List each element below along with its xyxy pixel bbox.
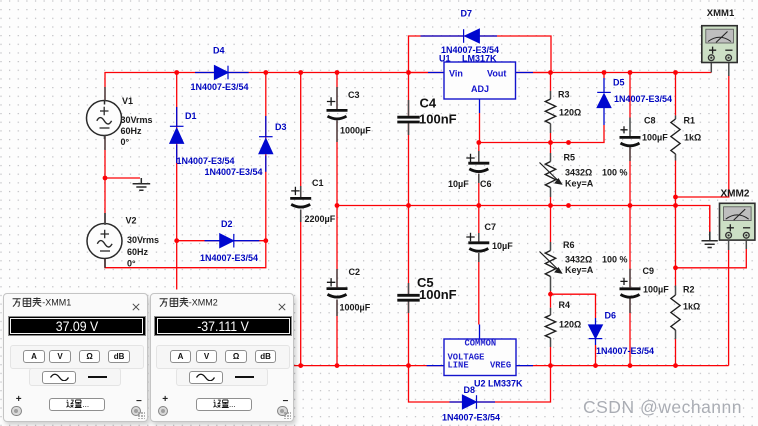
svg-text:0°: 0° — [127, 259, 136, 269]
svg-text:30Vrms: 30Vrms — [127, 235, 159, 245]
svg-text:2200µF: 2200µF — [305, 214, 336, 224]
svg-text:30Vrms: 30Vrms — [121, 115, 153, 125]
svg-text:100µF: 100µF — [642, 133, 668, 143]
svg-text:120Ω: 120Ω — [559, 108, 581, 118]
svg-text:1000µF: 1000µF — [340, 126, 371, 136]
svg-text:100µF: 100µF — [643, 285, 669, 295]
svg-text:1N4007-E3/54: 1N4007-E3/54 — [191, 82, 249, 92]
svg-text:C2: C2 — [349, 267, 361, 277]
svg-text:D3: D3 — [275, 122, 287, 132]
svg-text:R4: R4 — [559, 300, 571, 310]
svg-text:C6: C6 — [480, 179, 492, 189]
svg-text:U2 LM337K: U2 LM337K — [474, 379, 523, 389]
svg-text:C1: C1 — [312, 178, 324, 188]
svg-text:60Hz: 60Hz — [127, 247, 149, 257]
svg-text:1N4007-E3/54: 1N4007-E3/54 — [205, 167, 263, 177]
svg-text:3432Ω: 3432Ω — [565, 255, 592, 265]
svg-text:3432Ω: 3432Ω — [565, 168, 592, 178]
svg-text:120Ω: 120Ω — [559, 320, 581, 330]
svg-text:10µF: 10µF — [492, 241, 513, 251]
svg-text:0°: 0° — [121, 137, 130, 147]
svg-text:D5: D5 — [613, 78, 625, 88]
svg-text:U1: U1 — [439, 54, 451, 64]
svg-text:C7: C7 — [485, 222, 497, 232]
svg-text:C3: C3 — [348, 90, 360, 100]
svg-text:1N4007-E3/54: 1N4007-E3/54 — [442, 413, 500, 423]
svg-text:100nF: 100nF — [419, 112, 457, 127]
svg-text:C9: C9 — [643, 266, 655, 276]
svg-text:V2: V2 — [126, 216, 137, 226]
svg-text:R3: R3 — [558, 90, 570, 100]
svg-text:1N4007-E3/54: 1N4007-E3/54 — [177, 156, 235, 166]
svg-text:1N4007-E3/54: 1N4007-E3/54 — [596, 346, 654, 356]
svg-text:Key=A: Key=A — [565, 265, 594, 275]
svg-text:R1: R1 — [684, 116, 696, 126]
svg-text:C8: C8 — [644, 116, 656, 126]
svg-text:LM317K: LM317K — [462, 54, 497, 64]
svg-text:D1: D1 — [185, 111, 197, 121]
svg-text:R5: R5 — [564, 153, 576, 163]
svg-text:D6: D6 — [605, 311, 617, 321]
svg-text:100 %: 100 % — [602, 255, 628, 265]
svg-text:D4: D4 — [213, 46, 225, 56]
svg-text:V1: V1 — [122, 96, 133, 106]
svg-text:D7: D7 — [461, 9, 473, 19]
svg-text:100nF: 100nF — [419, 287, 457, 302]
svg-text:R6: R6 — [563, 240, 575, 250]
svg-text:1N4007-E3/54: 1N4007-E3/54 — [200, 253, 258, 263]
svg-text:XMM1: XMM1 — [707, 8, 735, 19]
svg-text:1000µF: 1000µF — [340, 303, 371, 313]
svg-text:10µF: 10µF — [448, 179, 469, 189]
svg-text:Key=A: Key=A — [565, 179, 594, 189]
svg-text:1kΩ: 1kΩ — [684, 133, 701, 143]
svg-text:100 %: 100 % — [602, 168, 628, 178]
svg-text:R2: R2 — [683, 285, 695, 295]
svg-text:D2: D2 — [221, 219, 233, 229]
svg-text:C4: C4 — [420, 96, 437, 111]
svg-text:60Hz: 60Hz — [121, 126, 143, 136]
svg-text:1kΩ: 1kΩ — [683, 302, 700, 312]
svg-text:XMM2: XMM2 — [721, 189, 750, 200]
svg-text:1N4007-E3/54: 1N4007-E3/54 — [614, 94, 672, 104]
svg-text:D8: D8 — [464, 385, 476, 395]
